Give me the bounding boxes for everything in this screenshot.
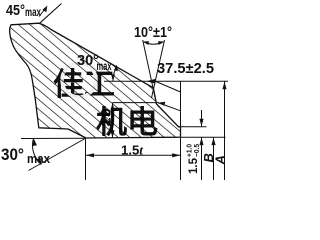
svg-text:A: A (213, 155, 228, 165)
svg-text:−0.5: −0.5 (194, 144, 201, 157)
svg-text:1.5t: 1.5t (121, 143, 143, 158)
svg-text:max: max (27, 151, 51, 166)
svg-text:机电: 机电 (96, 105, 158, 140)
svg-text:30°: 30° (1, 145, 24, 164)
svg-text:45°: 45° (6, 2, 25, 19)
svg-text:1.5: 1.5 (186, 158, 200, 174)
svg-text:max: max (25, 5, 41, 19)
svg-text:+1.0: +1.0 (187, 144, 194, 157)
svg-text:10°±1°: 10°±1° (134, 24, 172, 41)
svg-text:37.5±2.5: 37.5±2.5 (157, 60, 214, 77)
